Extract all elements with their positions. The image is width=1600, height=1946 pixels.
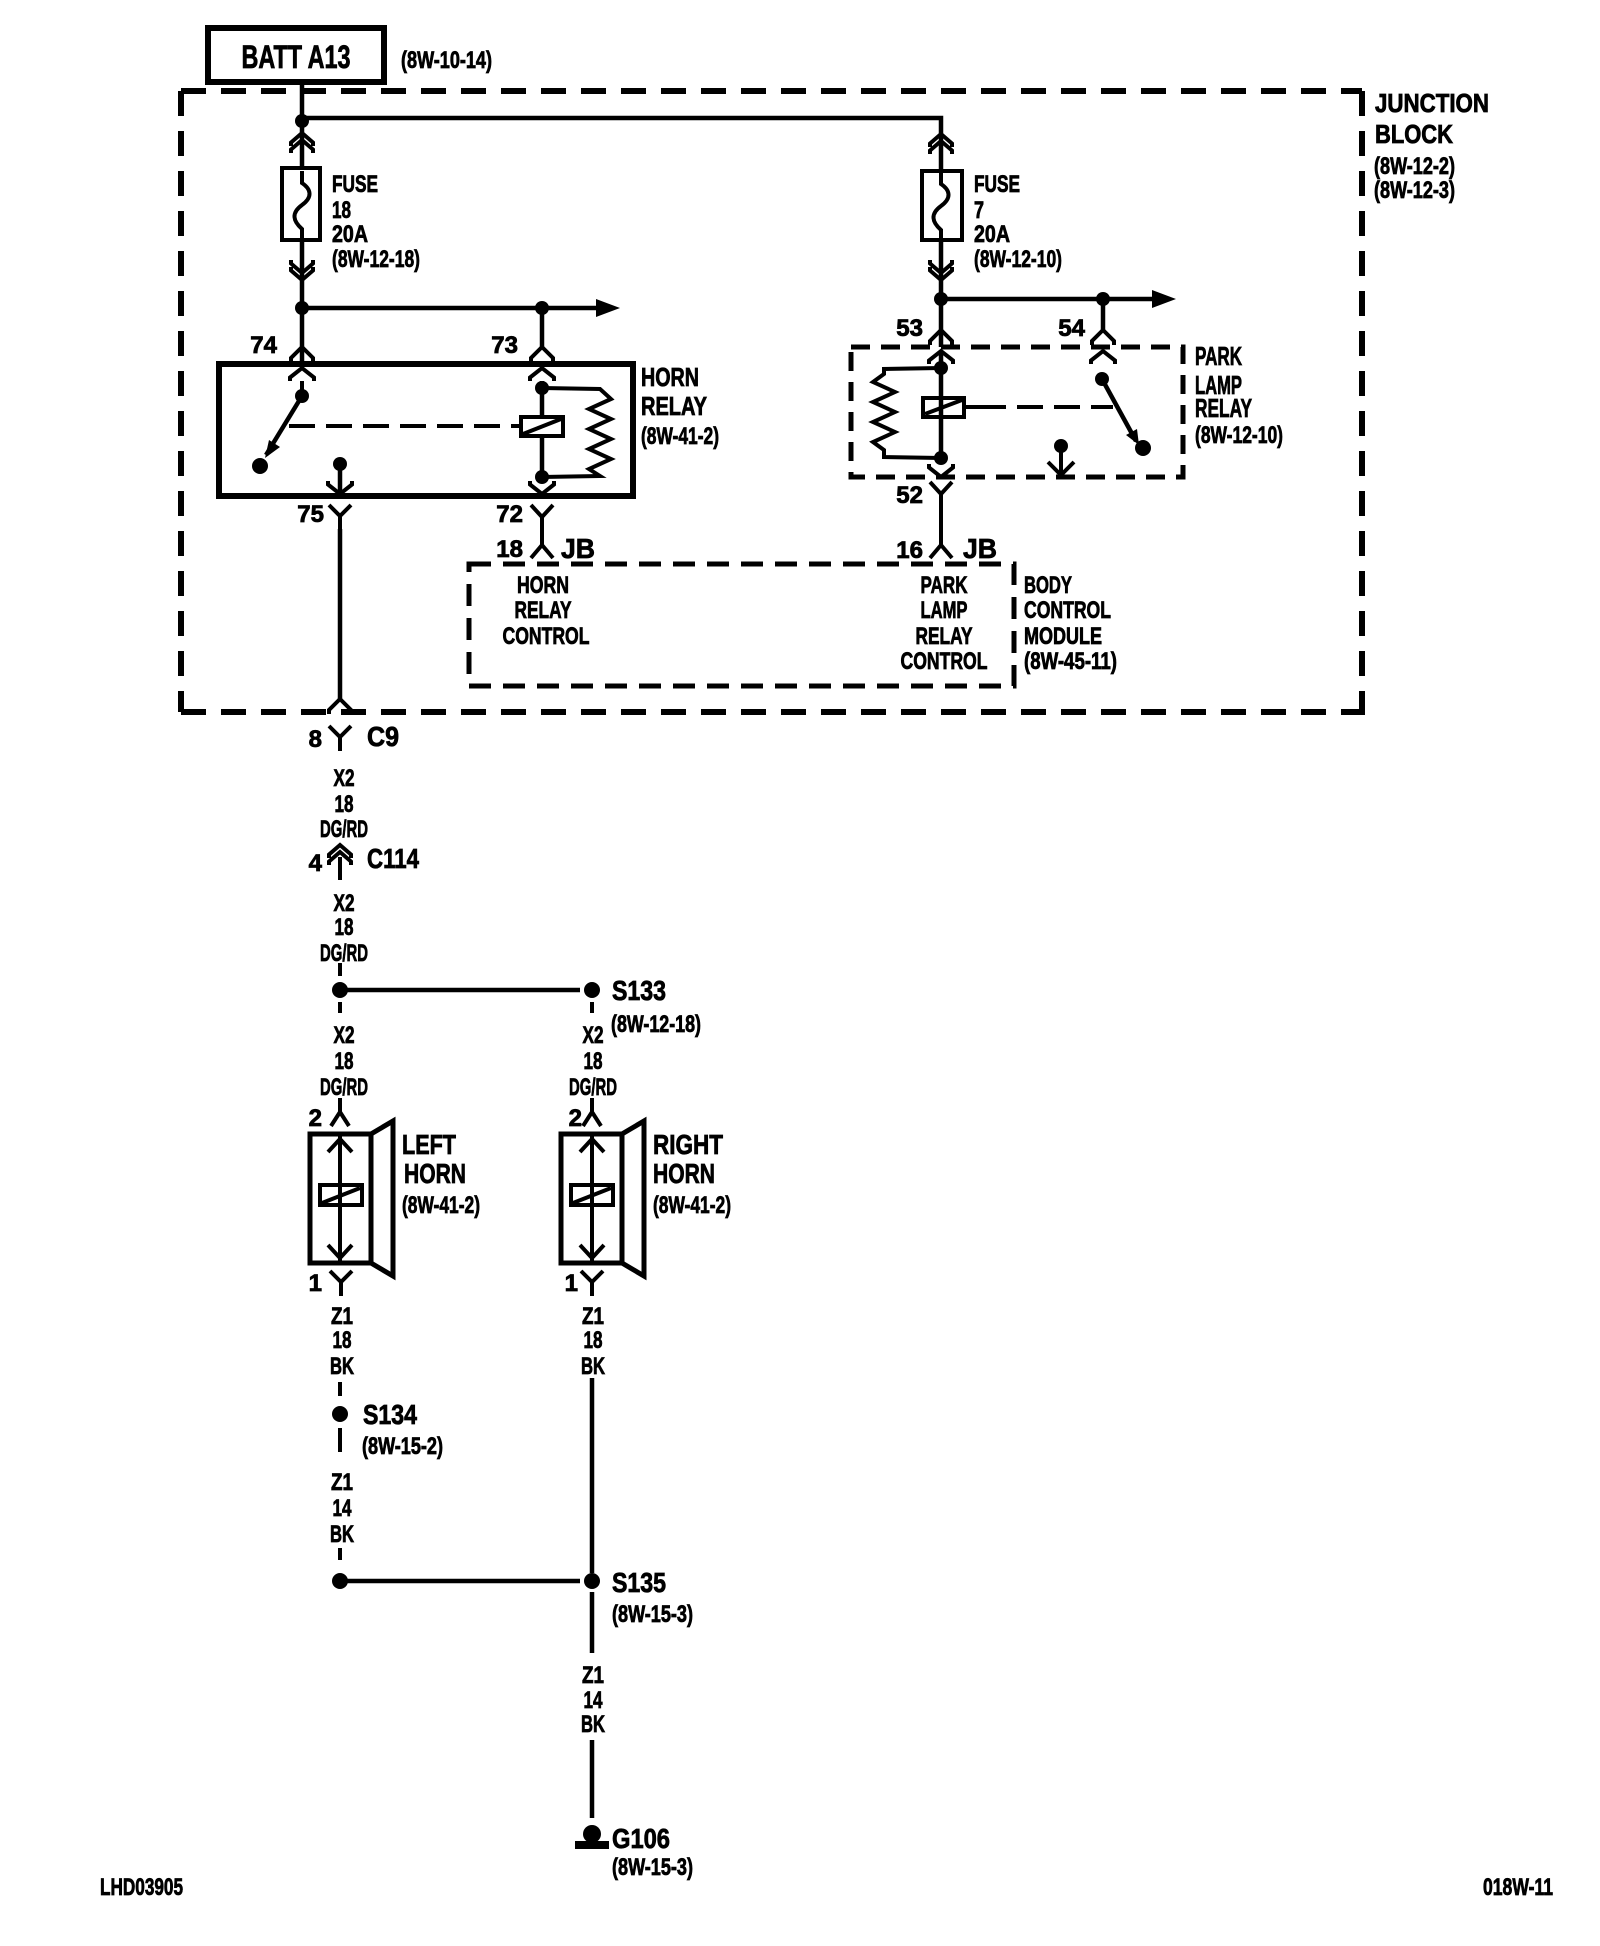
- svg-text:S133: S133: [612, 975, 666, 1006]
- svg-text:7: 7: [974, 197, 984, 224]
- svg-text:S134: S134: [363, 1399, 417, 1430]
- svg-text:LHD03905: LHD03905: [100, 1874, 183, 1901]
- svg-text:1: 1: [309, 1270, 322, 1297]
- right horn label: [653, 1129, 731, 1219]
- pin 72 exit chevron: [530, 481, 554, 494]
- svg-text:JB: JB: [963, 533, 997, 564]
- svg-text:Z1: Z1: [582, 1303, 604, 1330]
- svg-text:20A: 20A: [332, 221, 368, 248]
- svg-text:LEFT: LEFT: [402, 1129, 456, 1160]
- wire S135 down: [590, 1592, 595, 1653]
- pin 52 exit chevron: [929, 464, 953, 477]
- svg-text:BK: BK: [330, 1353, 354, 1380]
- dashed wire below S134: [338, 1428, 342, 1452]
- svg-text:16: 16: [896, 537, 923, 564]
- svg-text:2: 2: [569, 1105, 582, 1132]
- horn relay coil: [521, 417, 563, 436]
- connector chevrons fuse 7 line top: [930, 134, 952, 154]
- pin 72 / 18 JB connector: [531, 505, 553, 558]
- park relay coil: [923, 398, 964, 417]
- pin 54 lead: [1101, 299, 1106, 330]
- pin 74 lead: [291, 347, 313, 362]
- fuse F7 feed wire: [939, 135, 944, 171]
- svg-text:BK: BK: [581, 1353, 605, 1380]
- junction block label: [1374, 88, 1489, 204]
- arrow park feed continues right: [1152, 290, 1176, 308]
- svg-text:BK: BK: [581, 1711, 605, 1738]
- svg-text:14: 14: [584, 1687, 603, 1714]
- svg-text:(8W-12-3): (8W-12-3): [1374, 177, 1455, 204]
- left horn label: [402, 1129, 480, 1219]
- svg-text:RELAY: RELAY: [515, 597, 572, 624]
- svg-text:HORN: HORN: [517, 572, 569, 599]
- svg-text:PARK: PARK: [921, 572, 968, 599]
- wire label X2 18 DG/RD (C9 to C114): [320, 765, 368, 843]
- fuse F7: [922, 171, 962, 240]
- svg-text:18: 18: [496, 536, 523, 563]
- svg-text:73: 73: [491, 332, 518, 359]
- svg-text:FUSE: FUSE: [974, 171, 1020, 198]
- svg-text:72: 72: [496, 501, 523, 528]
- node S133 left: [332, 982, 348, 998]
- svg-text:14: 14: [333, 1495, 352, 1522]
- node park coil bottom: [934, 451, 948, 465]
- connector chevrons fuse 18 line bottom: [291, 260, 313, 280]
- svg-text:18: 18: [584, 1327, 603, 1354]
- svg-text:RELAY: RELAY: [916, 623, 973, 650]
- svg-text:Z1: Z1: [331, 1303, 353, 1330]
- svg-text:(8W-12-10): (8W-12-10): [1195, 422, 1283, 449]
- svg-text:DG/RD: DG/RD: [320, 816, 368, 843]
- svg-text:MODULE: MODULE: [1024, 623, 1102, 650]
- svg-text:(8W-41-2): (8W-41-2): [402, 1192, 480, 1219]
- pin 53 entry chevron: [929, 351, 953, 364]
- svg-text:C9: C9: [367, 721, 399, 752]
- wire battery to fuse 18: [300, 82, 305, 168]
- wire label left horn ground: [330, 1303, 354, 1380]
- node pin 73 branch: [535, 301, 549, 315]
- dashed wire into S134: [338, 1382, 342, 1396]
- body control module dashed box: [469, 564, 1014, 686]
- left horn pin 1 connector: [330, 1271, 352, 1296]
- svg-text:(8W-12-2): (8W-12-2): [1374, 153, 1455, 180]
- svg-text:18: 18: [335, 914, 354, 941]
- wire label right horn ground: [581, 1303, 605, 1380]
- svg-text:BATT A13: BATT A13: [242, 39, 351, 75]
- right horn pin 2 connector: [583, 1098, 601, 1126]
- pin 52 / 16 JB connector: [930, 482, 952, 558]
- park relay resistor: [873, 368, 941, 458]
- horn relay resistor: [542, 388, 611, 477]
- node horn relay feed: [295, 301, 309, 315]
- svg-text:C114: C114: [367, 843, 419, 874]
- right horn pin 1 connector: [581, 1271, 603, 1296]
- node park lamp relay feed: [934, 292, 948, 306]
- svg-text:18: 18: [335, 1048, 354, 1075]
- wire fuse 7 to park lamp relay: [939, 240, 944, 347]
- node S135 left: [332, 1573, 348, 1589]
- wire S135 branch: [340, 1579, 580, 1584]
- right horn body: [561, 1121, 644, 1276]
- park lamp relay dashed box: [851, 347, 1183, 477]
- svg-text:(8W-15-2): (8W-15-2): [362, 1433, 443, 1460]
- svg-text:X2: X2: [334, 890, 355, 917]
- svg-text:S135: S135: [612, 1567, 666, 1598]
- svg-text:1: 1: [565, 1270, 578, 1297]
- wire feed across to fuse 7: [302, 118, 941, 135]
- ground G106: [575, 1825, 609, 1849]
- wire right horn to S135: [590, 1378, 595, 1573]
- svg-text:CONTROL: CONTROL: [1024, 597, 1111, 624]
- svg-text:(8W-41-2): (8W-41-2): [641, 423, 719, 450]
- wire fuse 18 to horn relay: [300, 240, 305, 364]
- svg-text:DG/RD: DG/RD: [320, 940, 368, 967]
- svg-text:DG/RD: DG/RD: [320, 1074, 368, 1101]
- svg-text:(8W-45-11): (8W-45-11): [1024, 648, 1117, 675]
- svg-text:(8W-10-14): (8W-10-14): [401, 47, 492, 74]
- dashed wire below S133 right: [590, 1002, 594, 1013]
- fuse F18: [282, 168, 320, 240]
- node coil bottom: [535, 470, 549, 484]
- left horn pin 2 connector: [331, 1098, 349, 1126]
- svg-text:JUNCTION: JUNCTION: [1375, 88, 1489, 118]
- park relay coil wire: [939, 351, 944, 458]
- svg-text:(8W-15-3): (8W-15-3): [612, 1854, 693, 1881]
- wire pin 75 to C9: [338, 529, 343, 701]
- svg-text:CONTROL: CONTROL: [503, 623, 590, 650]
- svg-text:Z1: Z1: [331, 1469, 353, 1496]
- wire label X2 18 DG/RD (C114 to S133): [320, 890, 368, 967]
- dashed wire into S135 branch: [338, 1548, 342, 1560]
- svg-text:G106: G106: [612, 1823, 670, 1854]
- dashed wire into S133: [338, 963, 342, 976]
- park relay common post: [1048, 439, 1074, 475]
- svg-text:HORN: HORN: [641, 362, 699, 392]
- svg-text:18: 18: [332, 197, 351, 224]
- svg-text:BODY: BODY: [1024, 572, 1072, 599]
- svg-text:RIGHT: RIGHT: [653, 1129, 723, 1160]
- C9 connector male half: [329, 699, 351, 714]
- svg-text:PARK: PARK: [1195, 341, 1242, 371]
- svg-text:X2: X2: [334, 1022, 355, 1049]
- pin 73 lead: [540, 308, 545, 347]
- svg-text:8: 8: [309, 726, 322, 753]
- horn relay switch: [252, 381, 309, 474]
- svg-text:HORN: HORN: [653, 1158, 715, 1189]
- svg-text:20A: 20A: [974, 221, 1010, 248]
- splice S134: [332, 1406, 348, 1422]
- C114 connector: [329, 845, 351, 865]
- svg-text:2: 2: [309, 1105, 322, 1132]
- connector chevrons fuse 18 line top: [291, 133, 313, 153]
- arrow feed continues right: [596, 299, 620, 317]
- svg-text:(8W-12-10): (8W-12-10): [974, 246, 1062, 273]
- svg-text:BLOCK: BLOCK: [1375, 119, 1453, 149]
- wire park lamp feed branch: [941, 297, 1155, 302]
- svg-text:18: 18: [335, 791, 354, 818]
- svg-text:75: 75: [297, 501, 324, 528]
- fuse F18 labels: [332, 171, 420, 273]
- splice S135: [584, 1573, 600, 1589]
- node battery feed: [295, 114, 309, 128]
- horn relay box: [219, 364, 633, 496]
- body control module label: [1024, 572, 1117, 675]
- svg-text:18: 18: [333, 1327, 352, 1354]
- dashed wire below S133 left: [338, 1002, 342, 1013]
- splice S133: [584, 982, 600, 998]
- junction block dashed border: [181, 91, 1365, 712]
- svg-text:X2: X2: [334, 765, 355, 792]
- svg-text:(8W-41-2): (8W-41-2): [653, 1192, 731, 1219]
- park lamp relay control label: [901, 572, 988, 675]
- svg-text:HORN: HORN: [404, 1158, 466, 1189]
- horn relay pin 75: [328, 457, 352, 494]
- svg-text:JB: JB: [561, 533, 595, 564]
- connector chevrons fuse 7 line bottom: [930, 260, 952, 280]
- wire horn relay feed branch: [302, 306, 596, 311]
- pin 54 entry chevron: [1091, 351, 1115, 364]
- svg-text:CONTROL: CONTROL: [901, 648, 988, 675]
- fuse F7 labels: [974, 171, 1062, 273]
- wire label S135 to G106: [581, 1662, 605, 1738]
- svg-text:RELAY: RELAY: [641, 391, 707, 421]
- left horn body: [310, 1121, 393, 1276]
- park relay control dashed link: [964, 405, 980, 409]
- svg-text:X2: X2: [583, 1022, 604, 1049]
- wire S133 branch: [340, 988, 580, 993]
- svg-text:(8W-15-3): (8W-15-3): [612, 1601, 693, 1628]
- svg-text:RELAY: RELAY: [1195, 393, 1252, 423]
- wire label left horn feed: [320, 1022, 368, 1101]
- BATT A13 feed box: [208, 28, 384, 82]
- svg-text:54: 54: [1058, 315, 1085, 342]
- horn relay control label: [503, 572, 590, 650]
- svg-text:DG/RD: DG/RD: [569, 1074, 617, 1101]
- svg-text:LAMP: LAMP: [921, 597, 968, 624]
- park relay switch: [1095, 372, 1151, 456]
- node coil top: [535, 381, 549, 395]
- wire to ground G106: [590, 1740, 595, 1818]
- wire label right horn feed: [569, 1022, 617, 1101]
- wire label S134 to S135: [330, 1469, 354, 1548]
- pin 74 entry chevron: [290, 368, 314, 381]
- horn relay control dashed link: [289, 424, 519, 428]
- svg-text:Z1: Z1: [582, 1662, 604, 1689]
- svg-text:53: 53: [896, 315, 923, 342]
- node pin 54 branch: [1096, 292, 1110, 306]
- svg-text:74: 74: [250, 332, 277, 359]
- svg-text:FUSE: FUSE: [332, 171, 378, 198]
- C9 connector female half: [329, 726, 351, 751]
- svg-text:018W-11: 018W-11: [1483, 1874, 1553, 1901]
- pin 73 entry chevron: [530, 368, 554, 381]
- svg-text:BK: BK: [330, 1521, 354, 1548]
- svg-text:(8W-12-18): (8W-12-18): [611, 1011, 701, 1038]
- svg-text:4: 4: [309, 850, 323, 877]
- svg-text:(8W-12-18): (8W-12-18): [332, 246, 420, 273]
- node park coil top: [934, 361, 948, 375]
- pin 75 connector: [329, 505, 351, 529]
- svg-text:52: 52: [896, 482, 923, 509]
- horn relay coil wire: [540, 381, 545, 417]
- pin 53 lead: [930, 330, 952, 345]
- svg-text:18: 18: [584, 1048, 603, 1075]
